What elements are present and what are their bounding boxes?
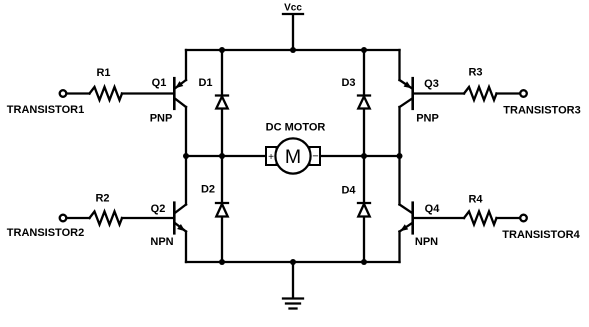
svg-text:Q4: Q4	[425, 203, 441, 215]
resistor R1	[90, 67, 123, 100]
wire Q3 collector to middle rail	[398, 107, 400, 156]
svg-text:DC MOTOR: DC MOTOR	[266, 122, 326, 134]
svg-text:D4: D4	[341, 185, 356, 197]
wire Q4 base to R4	[414, 217, 465, 219]
wire Q1 collector to middle rail	[185, 107, 187, 156]
svg-text:NPN: NPN	[150, 236, 173, 248]
wire Q2 collector to middle rail	[185, 156, 187, 205]
resistor R2	[90, 193, 123, 225]
wire bottom rail	[186, 261, 400, 263]
svg-text:D2: D2	[201, 184, 215, 196]
svg-text:D1: D1	[198, 77, 212, 89]
node left-middle junction	[183, 153, 189, 159]
svg-text:R3: R3	[468, 67, 482, 79]
diode D4	[341, 156, 370, 262]
node ground junction	[290, 259, 296, 265]
svg-text:M: M	[285, 146, 301, 168]
transistor Q4 (NPN)	[400, 203, 441, 248]
svg-text:TRANSISTOR3: TRANSISTOR3	[503, 105, 580, 117]
svg-text:Q3: Q3	[424, 78, 439, 90]
svg-text:PNP: PNP	[416, 113, 439, 125]
terminal TRANSISTOR2	[7, 215, 84, 239]
wire Q4 emitter to bottom rail	[398, 232, 400, 263]
wire middle rail right	[321, 155, 400, 157]
transistor Q3 (PNP)	[400, 78, 439, 125]
diode D3	[341, 50, 370, 156]
wire R1 to Q1 base	[122, 92, 174, 94]
diode D1	[198, 50, 228, 156]
svg-text:PNP: PNP	[150, 113, 173, 125]
power VCC	[283, 3, 303, 51]
terminal TRANSISTOR4	[502, 215, 580, 241]
svg-text:TRANSISTOR1: TRANSISTOR1	[7, 104, 84, 116]
svg-text:Q2: Q2	[151, 203, 166, 215]
node D3 top junction	[361, 47, 367, 53]
svg-text:TRANSISTOR4: TRANSISTOR4	[502, 229, 580, 241]
node right-middle junction	[397, 153, 403, 159]
wire Q2 emitter to bottom rail	[185, 232, 187, 263]
svg-text:D3: D3	[341, 77, 355, 89]
wire terminal2 to R2	[67, 217, 90, 219]
diode D2	[201, 156, 228, 262]
transistor Q2 (NPN)	[150, 203, 186, 248]
node D3-D4 middle junction	[361, 153, 367, 159]
svg-text:−: −	[312, 151, 318, 163]
wire Q3 emitter to top rail	[398, 50, 400, 80]
wire R4 to terminal4	[497, 217, 520, 219]
wire Q1 emitter to top rail	[185, 50, 187, 80]
resistor R3	[464, 67, 497, 101]
svg-text:Vcc: Vcc	[284, 3, 302, 14]
wire Q4 collector to middle rail	[398, 156, 400, 205]
node D1-D2 middle junction	[219, 153, 225, 159]
svg-text:R2: R2	[95, 193, 109, 205]
wire middle rail left	[186, 155, 266, 157]
svg-text:R1: R1	[96, 67, 110, 79]
ground	[283, 262, 303, 309]
node VCC junction	[290, 47, 296, 53]
wire R3 to terminal3	[497, 92, 520, 94]
node D2 bottom junction	[219, 259, 225, 265]
terminal TRANSISTOR3	[503, 90, 580, 116]
wire terminal1 to R1	[67, 92, 90, 94]
resistor R4	[464, 194, 497, 225]
wire Q3 base to R3	[414, 92, 465, 94]
node D4 bottom junction	[361, 259, 367, 265]
wire R2 to Q2 base	[122, 217, 174, 219]
terminal TRANSISTOR1	[7, 90, 84, 116]
svg-text:Q1: Q1	[152, 77, 167, 89]
motor M (DC MOTOR)	[266, 122, 326, 174]
transistor Q1 (PNP)	[150, 77, 186, 125]
svg-text:R4: R4	[468, 194, 483, 206]
svg-text:NPN: NPN	[415, 236, 438, 248]
svg-text:TRANSISTOR2: TRANSISTOR2	[7, 227, 84, 239]
node D1 top junction	[219, 47, 225, 53]
svg-text:+: +	[268, 152, 274, 163]
wire top rail	[186, 49, 400, 51]
